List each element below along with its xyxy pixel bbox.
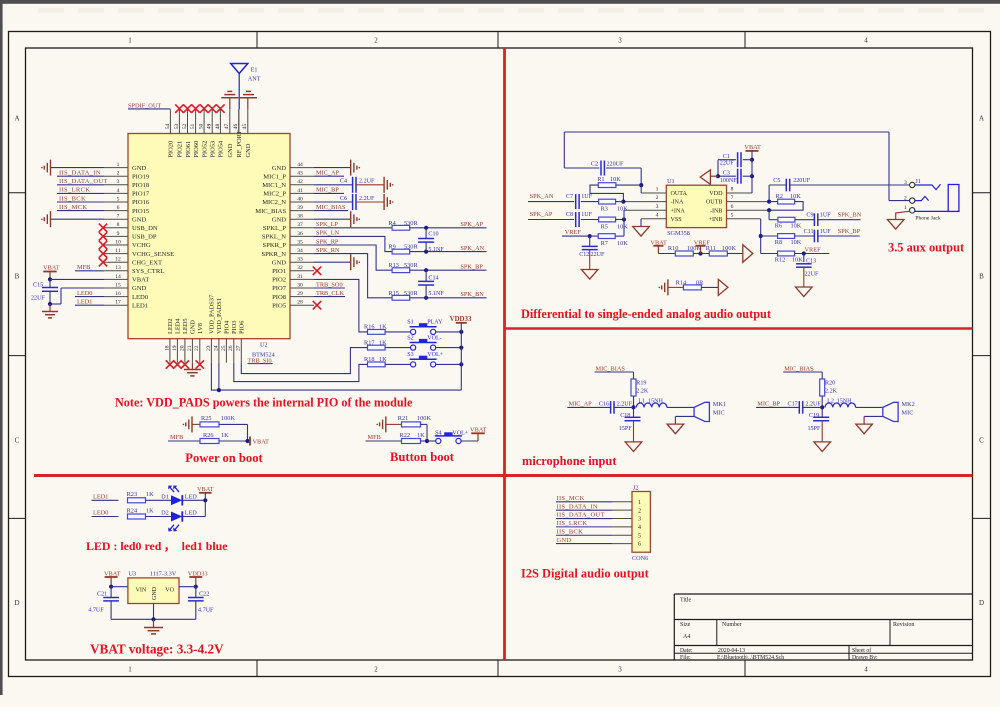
svg-text:C6: C6 [340,196,347,202]
svg-text:C3: C3 [723,171,730,177]
svg-text:PIO16: PIO16 [132,199,150,206]
svg-text:C16: C16 [599,402,609,408]
svg-text:SPKR_N: SPKR_N [261,251,286,258]
svg-text:USB_DN: USB_DN [132,225,158,232]
svg-text:C8: C8 [566,212,573,218]
svg-text:3.5 aux output: 3.5 aux output [888,241,965,255]
svg-text:8: 8 [731,187,734,193]
svg-text:GND: GND [152,586,158,600]
svg-text:1K: 1K [146,491,154,498]
svg-text:MIC_BIAS: MIC_BIAS [255,208,286,215]
svg-text:R16: R16 [364,324,375,331]
svg-text:VDD: VDD [709,191,723,197]
svg-text:3: 3 [904,180,907,186]
svg-text:VBAT: VBAT [253,439,270,446]
svg-text:ANT: ANT [248,76,261,83]
svg-text:MFB: MFB [170,434,183,441]
svg-text:PIO15: PIO15 [132,208,150,215]
svg-text:1: 1 [656,187,659,193]
svg-text:29: 29 [297,291,303,297]
svg-text:10K: 10K [617,224,628,231]
svg-text:VOL+: VOL+ [452,431,469,437]
svg-text:26: 26 [228,345,234,351]
svg-text:45: 45 [242,124,248,130]
svg-text:R15: R15 [388,290,399,297]
svg-text:C21: C21 [97,592,107,598]
svg-text:PIO52: PIO52 [201,141,208,158]
svg-text:R25: R25 [201,415,212,422]
svg-text:MIC_BIAS: MIC_BIAS [784,365,814,372]
svg-text:10K: 10K [790,193,801,200]
svg-text:2020-04-13: 2020-04-13 [718,648,745,654]
svg-text:MIC_BIAS: MIC_BIAS [316,204,346,211]
svg-text:PIO2: PIO2 [272,277,286,284]
svg-text:C17: C17 [788,402,798,408]
svg-text:RF_PORT: RF_PORT [236,130,243,157]
svg-text:VO: VO [165,588,174,594]
svg-text:SPK_BN: SPK_BN [460,291,484,298]
svg-text:PIO61: PIO61 [185,141,192,158]
svg-text:C5: C5 [773,178,780,184]
svg-text:LED0: LED0 [93,510,108,517]
svg-text:R12: R12 [775,257,786,264]
svg-text:GND: GND [272,165,287,172]
svg-text:10K: 10K [617,240,628,247]
svg-text:Date:: Date: [680,648,693,654]
svg-text:33: 33 [297,257,303,263]
svg-text:R8: R8 [775,239,782,246]
svg-text:MIC2_P: MIC2_P [263,191,286,198]
svg-text:LED5: LED5 [182,318,189,334]
svg-text:PIO4: PIO4 [224,320,231,334]
svg-text:SPK_AP: SPK_AP [460,221,483,228]
svg-text:VOL+: VOL+ [427,352,444,358]
svg-text:1K: 1K [379,324,387,331]
svg-text:LED1: LED1 [132,302,148,309]
svg-text:100NF: 100NF [720,178,738,184]
svg-text:MFB: MFB [368,434,381,441]
svg-text:B: B [15,273,20,281]
svg-text:R23: R23 [127,491,138,498]
svg-text:USB_DP: USB_DP [132,234,157,241]
svg-text:LED4: LED4 [175,318,182,334]
svg-text:LED: LED [185,494,198,501]
svg-text:22UF: 22UF [31,296,45,302]
svg-text:GND: GND [190,320,197,334]
svg-text:MIC_BP: MIC_BP [316,187,339,194]
svg-text:7: 7 [117,214,120,220]
svg-text:2.2K: 2.2K [825,388,838,394]
svg-text:39: 39 [297,205,303,211]
svg-text:13: 13 [115,265,121,271]
svg-text:R3: R3 [601,206,608,213]
svg-text:40: 40 [297,196,303,202]
svg-text:10K: 10K [791,239,802,246]
svg-text:Number: Number [722,622,742,628]
svg-text:VBAT voltage: 3.3-4.2V: VBAT voltage: 3.3-4.2V [90,642,224,657]
svg-text:SPK_AN: SPK_AN [530,193,554,200]
svg-text:Revision: Revision [893,622,914,628]
svg-text:Sheet of: Sheet of [852,647,871,654]
svg-text:I2S Digital audio output: I2S Digital audio output [521,567,650,581]
svg-text:PIO53: PIO53 [210,141,217,158]
svg-text:MIC1_P: MIC1_P [263,173,286,180]
svg-text:C14: C14 [428,275,438,281]
svg-text:IIS_DATA_IN: IIS_DATA_IN [59,170,101,177]
svg-text:1V8: 1V8 [197,323,204,334]
svg-text:1K: 1K [379,339,387,346]
svg-text:31: 31 [297,274,303,280]
svg-text:3: 3 [638,517,641,523]
svg-text:22UF: 22UF [591,252,605,258]
svg-text:8: 8 [117,222,120,228]
svg-text:5: 5 [117,196,120,202]
svg-text:1: 1 [638,500,641,506]
svg-text:22UF: 22UF [720,161,734,167]
svg-text:D1: D1 [161,494,169,501]
svg-text:C: C [979,437,984,445]
svg-text:PIO6: PIO6 [239,321,246,335]
svg-text:IIS_LRCK: IIS_LRCK [557,520,588,527]
svg-text:B: B [979,273,984,281]
svg-text:530R: 530R [404,244,418,251]
svg-text:SYS_CTRL: SYS_CTRL [132,268,164,275]
svg-text:530R: 530R [404,220,418,227]
svg-text:VBAT: VBAT [132,277,149,284]
svg-text:4.7UF: 4.7UF [198,608,214,614]
svg-text:43: 43 [297,171,303,177]
svg-text:R6: R6 [775,223,782,230]
svg-text:18: 18 [164,345,170,351]
svg-text:Differential to single-ended a: Differential to single-ended analog audi… [521,307,772,321]
svg-text:CHG_EXT: CHG_EXT [132,259,162,266]
svg-text:microphone input: microphone input [522,454,617,468]
svg-text:C15: C15 [33,283,43,289]
svg-text:C10: C10 [428,232,438,238]
svg-text:Drawn By:: Drawn By: [852,655,878,661]
svg-text:OUTA: OUTA [671,191,688,197]
svg-text:1K: 1K [221,432,229,439]
svg-text:1: 1 [128,37,132,45]
svg-text:14: 14 [115,274,121,280]
svg-text:VSS: VSS [671,217,683,223]
svg-text:MIC_AP: MIC_AP [316,170,340,177]
svg-text:22UF: 22UF [805,271,819,277]
svg-text:12: 12 [115,257,121,263]
svg-text:LED1: LED1 [77,299,92,306]
svg-text:SPKL_N: SPKL_N [262,234,286,241]
svg-text:IIS_LRCK: IIS_LRCK [59,187,90,194]
svg-text:20: 20 [179,345,185,351]
svg-text:2.2K: 2.2K [636,388,649,394]
svg-text:Power on boot: Power on boot [185,451,263,465]
svg-text:15PF: 15PF [808,426,821,432]
svg-text:2: 2 [374,37,378,45]
svg-text:15: 15 [115,282,121,288]
svg-text:PIO19: PIO19 [132,173,150,180]
svg-text:R17: R17 [364,339,375,346]
svg-text:10K: 10K [617,206,628,213]
svg-text:Title: Title [680,598,691,604]
svg-text:File:: File: [680,655,691,661]
svg-text:VREF: VREF [805,246,822,253]
svg-text:CON6: CON6 [632,555,648,562]
svg-text:VDD_PADS1: VDD_PADS1 [216,298,223,334]
svg-text:S4: S4 [435,431,441,437]
svg-text:37: 37 [297,222,303,228]
svg-text:Button boot: Button boot [390,450,455,464]
svg-text:R21: R21 [398,415,409,422]
svg-text:GND: GND [132,285,147,292]
svg-text:R20: R20 [825,380,835,386]
svg-text:SPK_LP: SPK_LP [316,221,339,228]
svg-text:S2: S2 [407,335,413,341]
svg-text:OUTB: OUTB [706,200,723,206]
svg-text:PIO17: PIO17 [132,191,150,198]
svg-text:VIN: VIN [136,588,147,594]
svg-text:+INB: +INB [709,217,723,223]
svg-text:21: 21 [187,345,193,351]
svg-text:A: A [14,115,19,123]
svg-text:PIO21: PIO21 [177,141,184,158]
svg-text:4: 4 [864,37,868,45]
svg-text:MIC_AP: MIC_AP [569,401,593,408]
svg-text:5: 5 [638,533,641,539]
svg-text:IIS_DATA_OUT: IIS_DATA_OUT [59,178,108,185]
svg-text:+INA: +INA [671,208,686,214]
svg-text:MFB: MFB [77,264,90,271]
svg-text:SGM358: SGM358 [667,230,690,237]
svg-text:R10: R10 [668,245,679,252]
svg-text:3: 3 [618,37,622,45]
svg-text:35: 35 [297,239,303,245]
svg-text:9: 9 [117,231,120,237]
svg-text:R9: R9 [388,244,395,251]
svg-text:10K: 10K [791,223,802,230]
svg-text:220UF: 220UF [793,178,811,184]
svg-text:2: 2 [374,666,378,674]
svg-text:SPK_AN: SPK_AN [460,245,484,252]
svg-text:MIC1_N: MIC1_N [262,182,286,189]
svg-text:LED: LED [185,510,198,517]
svg-text:PIO54: PIO54 [218,140,225,157]
svg-text:SPK_BP: SPK_BP [838,228,861,235]
svg-text:38: 38 [297,214,303,220]
svg-text:30: 30 [297,282,303,288]
svg-text:1K: 1K [379,356,387,363]
svg-text:SPK_RP: SPK_RP [316,238,339,245]
svg-text:SPKR_P: SPKR_P [263,242,287,249]
svg-text:E1: E1 [251,67,258,74]
svg-text:6: 6 [638,542,641,548]
svg-text:32: 32 [297,265,303,271]
svg-text:PIO18: PIO18 [132,182,150,189]
svg-text:C2: C2 [591,162,598,168]
svg-text:GND: GND [227,143,234,157]
svg-text:SPKL_P: SPKL_P [263,225,286,232]
svg-text:IIS_BCK: IIS_BCK [59,195,86,202]
svg-text:41: 41 [297,188,303,194]
svg-text:R11: R11 [706,245,716,252]
svg-text:R26: R26 [203,432,214,439]
svg-text:100K: 100K [417,415,431,422]
svg-text:GND: GND [132,216,147,223]
svg-text:3: 3 [656,204,659,210]
svg-text:220UF: 220UF [607,162,625,168]
svg-text:51: 51 [190,124,196,130]
svg-text:24: 24 [213,345,219,351]
svg-text:C9: C9 [806,213,813,219]
svg-text:6: 6 [117,205,120,211]
svg-text:C4: C4 [340,179,347,185]
svg-text:IIS_MCK: IIS_MCK [557,495,585,502]
svg-text:15PF: 15PF [619,426,632,432]
svg-text:49: 49 [207,124,213,130]
svg-text:VDD_PADS37: VDD_PADS37 [209,294,216,334]
svg-text:23: 23 [206,345,212,351]
svg-text:R1: R1 [597,176,604,183]
svg-text:C18: C18 [620,413,630,419]
svg-text:2: 2 [117,171,120,177]
svg-text:0R: 0R [696,279,704,286]
svg-text:28: 28 [297,300,303,306]
svg-text:Phone Jack: Phone Jack [915,216,941,222]
svg-text:5: 5 [731,212,734,218]
svg-text:GND: GND [132,165,147,172]
svg-text:1: 1 [904,205,907,211]
svg-text:PIO3: PIO3 [231,321,238,335]
svg-text:J1: J1 [915,178,921,185]
svg-text:44: 44 [297,162,303,168]
svg-text:R13: R13 [388,262,399,269]
svg-text:MIC_BIAS: MIC_BIAS [596,365,626,372]
svg-text:1K: 1K [146,507,154,514]
svg-text:MIC2_N: MIC2_N [262,199,286,206]
svg-text:A4: A4 [683,634,690,640]
svg-text:GND: GND [245,143,252,157]
svg-text:LED : led0 red ， led1 blue: LED : led0 red ， led1 blue [86,539,228,553]
svg-text:Size: Size [680,622,691,628]
svg-text:2.2UF: 2.2UF [359,179,375,185]
svg-text:19: 19 [172,345,178,351]
svg-text:4: 4 [656,212,659,218]
svg-text:530R: 530R [404,262,418,269]
svg-text:C22: C22 [199,592,209,598]
svg-text:6: 6 [731,204,734,210]
svg-text:22: 22 [194,345,200,351]
svg-text:3: 3 [618,666,622,674]
svg-text:5.1NF: 5.1NF [428,247,444,253]
svg-text:17: 17 [115,300,121,306]
svg-text:GND: GND [272,259,287,266]
svg-text:PLAY: PLAY [427,320,443,326]
svg-text:-INA: -INA [671,200,684,206]
svg-text:R5: R5 [601,224,608,231]
svg-text:C19: C19 [809,413,819,419]
svg-text:42: 42 [297,179,303,185]
svg-text:PIO60: PIO60 [193,141,200,158]
svg-text:4: 4 [117,188,120,194]
svg-text:LED2: LED2 [167,318,174,334]
svg-text:C1: C1 [723,154,730,160]
svg-text:11: 11 [115,248,121,254]
svg-text:TRB_SO0: TRB_SO0 [316,281,343,288]
svg-text:A: A [979,115,984,123]
svg-text:U2: U2 [260,342,268,349]
svg-text:C12: C12 [579,252,589,258]
svg-text:D2: D2 [161,510,169,517]
svg-text:50: 50 [199,124,205,130]
svg-text:52: 52 [182,124,188,130]
svg-text:MIC: MIC [713,410,725,417]
svg-text:PIO1: PIO1 [272,268,286,275]
svg-text:R2: R2 [776,193,783,200]
svg-text:LED0: LED0 [132,294,149,301]
svg-text:4: 4 [864,666,868,674]
svg-text:MK2: MK2 [902,401,915,408]
svg-text:100K: 100K [221,415,235,422]
svg-text:100K: 100K [722,245,736,252]
svg-text:IIS_DATA_OUT: IIS_DATA_OUT [557,512,605,519]
svg-text:R22: R22 [400,432,411,439]
svg-text:2: 2 [656,195,659,201]
svg-text:R7: R7 [601,240,608,247]
svg-text:Note: VDD_PADS powers the inte: Note: VDD_PADS powers the internal PIO o… [115,396,413,410]
svg-text:47: 47 [224,124,230,130]
svg-text:1UF: 1UF [581,212,592,218]
svg-text:C7: C7 [566,194,573,200]
svg-text:VCHG: VCHG [132,242,151,249]
svg-text:C11: C11 [804,229,814,235]
svg-text:48: 48 [215,124,221,130]
svg-text:1UF: 1UF [820,229,831,235]
svg-text:1: 1 [117,162,120,168]
svg-text:25: 25 [221,345,227,351]
svg-text:1UF: 1UF [820,213,831,219]
svg-text:MIC_BP: MIC_BP [757,401,780,408]
svg-text:LED0: LED0 [77,290,92,297]
svg-text:54: 54 [165,124,171,130]
svg-text:U1: U1 [667,178,675,185]
svg-text:S3: S3 [407,352,413,358]
svg-text:VREF: VREF [565,229,582,236]
svg-text:MIC: MIC [902,410,914,417]
svg-text:R19: R19 [636,380,646,386]
svg-text:1117-3.3V: 1117-3.3V [150,570,177,577]
svg-text:SPK_RN: SPK_RN [316,247,340,254]
svg-text:VBAT: VBAT [744,144,761,151]
svg-text:SPK_AP: SPK_AP [530,211,553,218]
svg-text:10K: 10K [792,257,803,264]
svg-text:16: 16 [115,291,121,297]
svg-text:4: 4 [638,525,641,531]
svg-text:LED1: LED1 [93,493,108,500]
svg-text:S1: S1 [407,320,413,326]
svg-text:D: D [979,599,984,607]
svg-text:PIO20: PIO20 [168,141,175,158]
svg-text:C: C [15,437,20,445]
svg-text:27: 27 [236,345,242,351]
svg-text:R24: R24 [127,507,138,514]
svg-text:36: 36 [297,231,303,237]
svg-text:VOL-: VOL- [427,335,442,341]
svg-text:1: 1 [128,666,132,674]
svg-text:MK1: MK1 [713,401,726,408]
svg-text:IIS_BCK: IIS_BCK [557,528,584,535]
svg-text:D: D [14,599,19,607]
svg-text:SPK_LN: SPK_LN [316,230,340,237]
svg-text:4.7UF: 4.7UF [88,608,104,614]
